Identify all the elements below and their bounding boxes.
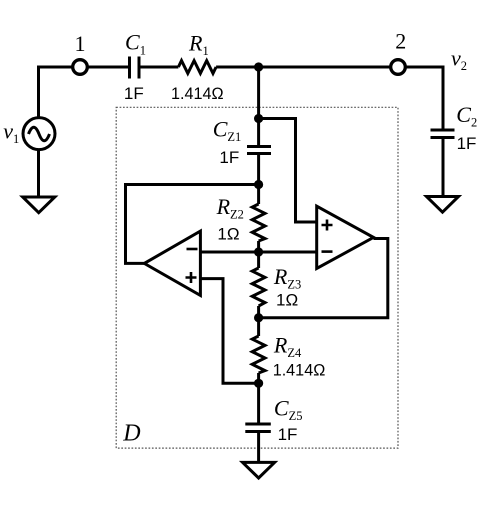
wire: + input of U1 to RZ4/CZ5 junction — [200, 279, 258, 384]
resistor R1 — [178, 61, 216, 74]
wire: mid row to both - inputs — [200, 251, 316, 254]
op-amp U2 (right, pointing right) — [317, 206, 374, 268]
wire: mid junction to RZ3 top — [257, 252, 260, 268]
resistor RZ3 — [252, 268, 265, 306]
capacitor C1 plates — [130, 57, 140, 79]
wire: CZ5 bottom to ground — [257, 433, 260, 462]
junction node at R1/C2 row — [254, 62, 263, 71]
svg-text:1F: 1F — [278, 425, 298, 444]
capacitor CZ5 plates — [245, 424, 270, 432]
ground under v1 — [23, 197, 55, 213]
junction node CZ1 bottom — [254, 180, 263, 189]
wire: branch to + input of U2 — [259, 119, 317, 223]
dashed box D — [116, 107, 398, 448]
source v1 — [23, 118, 55, 150]
junction node RZ3/RZ4 — [254, 313, 263, 322]
svg-text:1F: 1F — [124, 84, 144, 103]
wire: v1 bottom to ground — [37, 150, 40, 197]
svg-text:1Ω: 1Ω — [217, 224, 239, 243]
wire: junction to RZ4 top — [257, 318, 260, 336]
svg-text:1.414Ω: 1.414Ω — [273, 361, 326, 380]
wire: main vertical junction to CZ1 top — [257, 67, 260, 145]
capacitor C2 plates — [431, 130, 455, 138]
svg-text:D: D — [122, 421, 140, 447]
svg-text:2: 2 — [395, 28, 406, 53]
resistor RZ2 — [252, 204, 265, 241]
wire: R1 right to node 2 and down to C2 — [216, 67, 443, 129]
U1 minus sign — [187, 248, 198, 251]
wire: CZ1 bottom to RZ2 top — [257, 155, 260, 204]
ground under C2 — [427, 197, 459, 213]
capacitor CZ1 plates — [247, 147, 271, 154]
svg-text:1Ω: 1Ω — [276, 290, 298, 309]
U1 plus sign — [186, 272, 197, 283]
wire: feedback from U2 output — [259, 239, 388, 318]
wire: top-left from v1 up and right to C1 — [39, 67, 129, 118]
ground under CZ5 — [243, 462, 275, 478]
terminal node 2 — [391, 60, 406, 75]
wire: feedback to output of U1 — [126, 185, 259, 264]
svg-text:1F: 1F — [457, 134, 477, 153]
junction node RZ4/CZ5 — [254, 379, 263, 388]
U2 plus sign — [322, 220, 333, 231]
U2 minus sign — [322, 250, 333, 253]
junction node mid (RZ2/RZ3) — [254, 247, 263, 256]
junction node CZ1 top — [254, 114, 263, 123]
wire: RZ3 bottom to junction — [257, 306, 260, 318]
svg-text:1F: 1F — [219, 148, 239, 167]
wire: RZ2 bottom to mid junction — [257, 241, 260, 252]
resistor RZ4 — [252, 336, 265, 373]
wire: RZ4 bottom to junction — [257, 373, 260, 383]
svg-text:1.414Ω: 1.414Ω — [171, 84, 224, 103]
wire: C2 bottom to ground — [442, 139, 445, 197]
terminal node 1 — [73, 60, 88, 75]
wire: junction to CZ5 top — [257, 383, 260, 422]
svg-text:1: 1 — [75, 31, 86, 56]
op-amp U1 (left, pointing left) — [144, 231, 200, 295]
wire: C1 right plate to R1 left — [141, 66, 179, 69]
